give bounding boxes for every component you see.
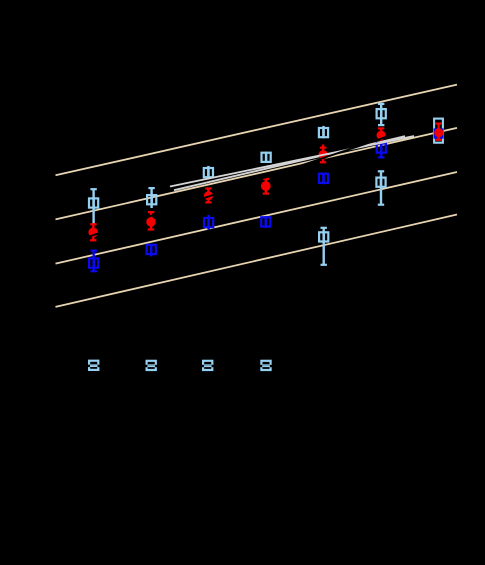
red point col7 [434,123,443,141]
blue square col7 [434,119,443,143]
blue square col4 [261,216,270,228]
black steep fit line [85,124,425,238]
lightblue point col3 [204,166,213,180]
tan power-law line 2 [56,128,458,219]
lightblue limit square b3 [200,361,215,370]
lightblue point col5 top [319,126,328,138]
lightblue limit square b4 [258,361,273,370]
lightblue point col6 lower [376,170,385,206]
red point col4 [261,178,271,195]
grey fit line B (lower of pair) [174,136,405,190]
lightblue limit square b1 [86,361,101,370]
grey fit line A (upper of pair, drawn over markers) [170,136,414,186]
blue point col1 [89,250,98,273]
lightblue point col5 lower [319,227,328,266]
blue square col7 (over box) [434,128,444,138]
red point col6 [377,127,386,141]
red point col2 [146,211,156,231]
blue square col5 [319,173,328,185]
blue point col3 [204,215,213,230]
lightblue errorbar col1 [89,188,98,223]
tan power-law line 3 [56,172,458,264]
red point col5 [319,145,328,164]
red point col3 [204,187,213,203]
lightblue limit square b2 [144,361,159,370]
lightblue square col1 [89,197,98,208]
blue point col6 [377,142,386,158]
lightblue square col4 [262,152,271,163]
lightblue point col6 top [377,103,386,126]
tan power-law line 4 (bottom) [56,215,458,307]
tan power-law line 1 (top) [56,85,458,176]
blue point col2 [147,244,156,257]
lightblue point col2 [147,187,156,208]
red point col1 [88,223,98,241]
